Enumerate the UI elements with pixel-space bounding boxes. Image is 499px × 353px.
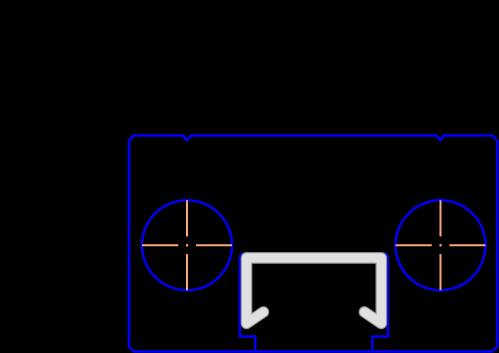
mounting clip body <box>247 258 382 324</box>
clip channel recess outline with stepped feet <box>240 254 388 352</box>
centerline crosshair right vertical <box>440 200 442 290</box>
centerline crosshair left horizontal <box>142 244 232 246</box>
hole circle right <box>396 200 486 290</box>
centerline crosshair left vertical <box>186 200 188 290</box>
centerline crosshair right horizontal <box>396 244 486 246</box>
hole circle left <box>142 200 232 290</box>
profile outer outline with two V-notches <box>129 135 497 351</box>
mounting clip border <box>247 258 382 324</box>
